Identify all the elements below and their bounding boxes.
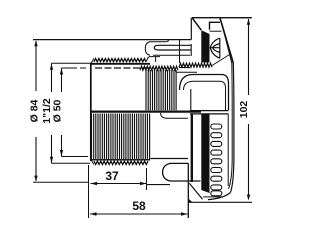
svg-text:37: 37 xyxy=(105,169,119,183)
svg-text:Ø 50: Ø 50 xyxy=(52,99,64,122)
svg-text:Ø 84: Ø 84 xyxy=(29,99,41,122)
svg-text:102: 102 xyxy=(238,101,250,119)
svg-text:58: 58 xyxy=(132,199,146,213)
